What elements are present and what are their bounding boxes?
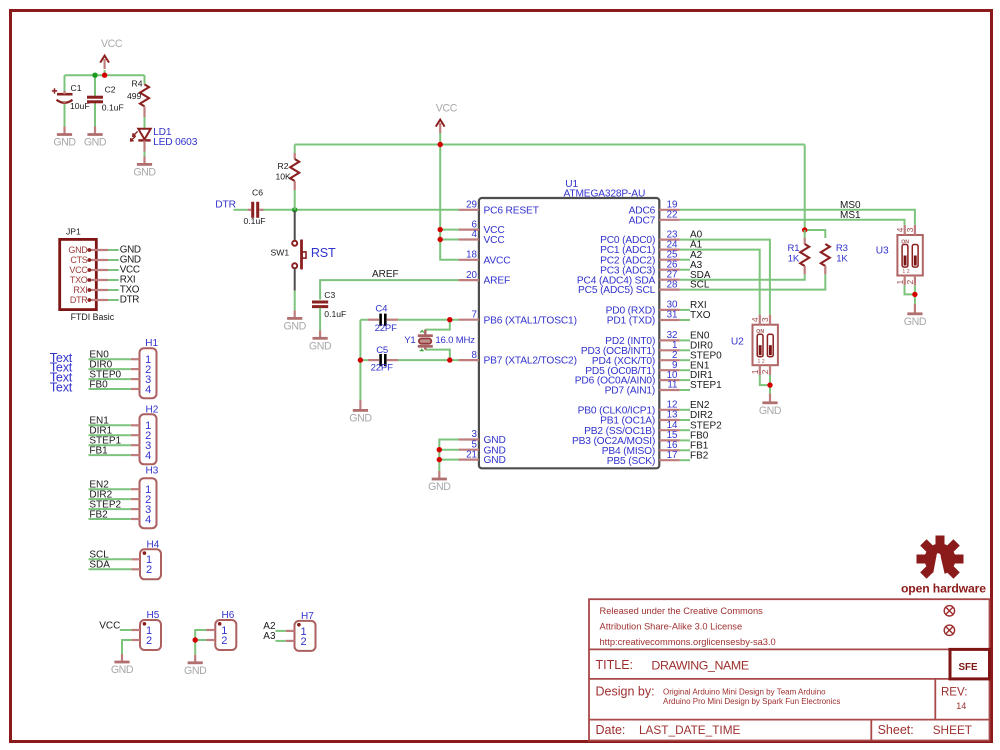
svg-text:MS1: MS1 bbox=[840, 210, 861, 221]
junction U3 gnd bbox=[912, 292, 917, 297]
svg-text:DTR: DTR bbox=[120, 295, 139, 306]
pin 29 PC6 RESET bbox=[459, 209, 479, 211]
ground H6 bbox=[184, 655, 207, 677]
VCC symbol center bbox=[436, 120, 445, 133]
capacitor C1 bbox=[52, 88, 73, 103]
ground C2 bbox=[84, 127, 107, 149]
pin 2 PD4 (XCK/T0) bbox=[659, 359, 680, 361]
svg-text:RXI: RXI bbox=[73, 285, 87, 295]
wire SW1 to gnd bbox=[294, 291, 296, 311]
svg-text:VCC: VCC bbox=[101, 38, 123, 50]
svg-text:21: 21 bbox=[466, 449, 477, 460]
capacitor C3 bbox=[312, 302, 328, 307]
svg-text:AREF: AREF bbox=[372, 269, 399, 280]
svg-text:14: 14 bbox=[956, 701, 966, 711]
open hardware logo gear bbox=[917, 536, 964, 584]
junction C5 rail bbox=[358, 357, 363, 362]
resistor R1 bbox=[804, 238, 806, 244]
wire STEP1 bbox=[89, 444, 131, 446]
pin 19 ADC6 bbox=[659, 209, 680, 211]
pin 26 PC3 (ADC3) bbox=[659, 269, 680, 271]
wire JP1 pin 5 bbox=[108, 289, 119, 291]
SFE box bbox=[950, 649, 990, 679]
svg-text:PB5 (SCK): PB5 (SCK) bbox=[607, 456, 655, 467]
svg-text:TITLE:: TITLE: bbox=[596, 658, 634, 672]
wire SCL to R3 bbox=[680, 274, 826, 289]
circle-x icon 1 bbox=[944, 606, 954, 616]
ground U3 bbox=[914, 304, 916, 306]
junction DTR/R2/SW1 bbox=[292, 207, 297, 212]
svg-text:20: 20 bbox=[466, 270, 477, 281]
header H4 bbox=[131, 549, 161, 579]
wire STEP0 stub bbox=[680, 359, 690, 361]
wire FB1 bbox=[89, 454, 131, 456]
svg-text:C6: C6 bbox=[252, 187, 263, 197]
wire MS1 bbox=[680, 220, 905, 225]
svg-text:R2: R2 bbox=[278, 161, 289, 171]
pin 4 VCC bbox=[459, 238, 479, 240]
wire STEP1 stub bbox=[680, 389, 690, 391]
svg-text:http:creativecommons.orglicens: http:creativecommons.orglicensesby-sa3.0 bbox=[600, 637, 776, 647]
ground LD1 bbox=[133, 156, 156, 178]
pin 12 PB0 (CLK0/ICP1) bbox=[659, 409, 680, 411]
svg-text:0.1uF: 0.1uF bbox=[324, 309, 346, 319]
wire AREF bbox=[320, 280, 459, 300]
pin 1 PD3 (OCB/INT1) bbox=[659, 349, 680, 351]
wire EN1 stub bbox=[680, 369, 690, 371]
wire JP1 pin 6 bbox=[108, 299, 119, 301]
capacitor C5 bbox=[368, 354, 398, 366]
svg-text:18: 18 bbox=[466, 250, 477, 261]
wire H5 pin1 bbox=[120, 629, 131, 631]
switch SW1 bbox=[292, 211, 306, 291]
svg-text:22PF: 22PF bbox=[375, 323, 397, 334]
svg-text:VCC: VCC bbox=[484, 235, 505, 246]
ground C1 bbox=[53, 127, 76, 149]
svg-text:C5: C5 bbox=[376, 345, 388, 356]
pin 10 PD6 (OC0A/AIN0) bbox=[659, 379, 680, 381]
svg-text:17: 17 bbox=[667, 450, 678, 461]
svg-text:H7: H7 bbox=[301, 611, 314, 622]
pin 32 PD2 (INT0) bbox=[659, 339, 680, 341]
junction rail/VCC bbox=[438, 142, 443, 147]
svg-text:Design by:: Design by: bbox=[596, 684, 655, 698]
svg-text:C4: C4 bbox=[375, 303, 388, 314]
svg-text:PC5 (ADC5) SCL: PC5 (ADC5) SCL bbox=[578, 285, 656, 296]
wire A1 to U2 bbox=[680, 250, 760, 315]
junction VCC/rail bbox=[102, 73, 107, 78]
pin 11 PD7 (AIN1) bbox=[659, 389, 680, 391]
svg-text:SDA: SDA bbox=[89, 560, 110, 571]
wire DIR2 bbox=[89, 498, 131, 500]
svg-text:PB7 (XTAL2/TOSC2): PB7 (XTAL2/TOSC2) bbox=[484, 356, 577, 367]
svg-text:LAST_DATE_TIME: LAST_DATE_TIME bbox=[639, 723, 741, 737]
pin 24 PC1 (ADC1) bbox=[659, 249, 680, 251]
svg-text:H2: H2 bbox=[146, 405, 159, 416]
svg-text:FB2: FB2 bbox=[690, 450, 709, 461]
pin 15 PB3 (OC2A/MOSI) bbox=[659, 439, 680, 441]
svg-text:VCC: VCC bbox=[69, 265, 88, 275]
ground U1 bbox=[428, 471, 451, 493]
pin 23 PC0 (ADC0) bbox=[659, 239, 680, 241]
svg-text:Text: Text bbox=[50, 381, 73, 395]
switch U3 bbox=[895, 225, 923, 285]
wire JP1 pin 4 bbox=[108, 279, 119, 281]
junction gnd pin5 bbox=[437, 447, 442, 452]
junction H6 bbox=[193, 637, 198, 642]
svg-text:PB6 (XTAL1/TOSC1): PB6 (XTAL1/TOSC1) bbox=[484, 315, 577, 326]
wire STEP2 bbox=[89, 508, 131, 510]
svg-text:VCC: VCC bbox=[436, 103, 458, 115]
svg-text:H6: H6 bbox=[222, 610, 235, 621]
wire FB2 stub bbox=[680, 459, 690, 461]
svg-text:CTS: CTS bbox=[70, 255, 87, 265]
svg-text:29: 29 bbox=[466, 200, 477, 211]
capacitor C2 bbox=[87, 97, 103, 102]
wire VCC top-left rail bbox=[65, 70, 145, 127]
svg-text:10uF: 10uF bbox=[70, 101, 90, 111]
pin 14 PB2 (SS/OC1B) bbox=[659, 429, 680, 431]
svg-text:Arduino Pro Mini Design by Spa: Arduino Pro Mini Design by Spark Fun Ele… bbox=[663, 697, 840, 706]
wire STEP2 stub bbox=[680, 429, 690, 431]
svg-text:Original Arduino Mini Design b: Original Arduino Mini Design by Team Ard… bbox=[663, 688, 826, 697]
pin 30 PD0 (RXD) bbox=[659, 309, 680, 311]
LED LD1 bbox=[131, 129, 151, 152]
junction gnd pin21 bbox=[437, 457, 442, 462]
IC U1 ATMEGA328P-AU box bbox=[479, 198, 659, 468]
junction VCC pin4 bbox=[438, 237, 443, 242]
svg-text:PC6 RESET: PC6 RESET bbox=[484, 205, 539, 216]
svg-text:VCC: VCC bbox=[99, 621, 120, 632]
wire DIR1 bbox=[89, 434, 131, 436]
junction U2 gnd bbox=[767, 382, 772, 387]
connector JP1 bbox=[60, 239, 108, 309]
wire EN2 stub bbox=[680, 409, 690, 411]
wire MS0 bbox=[680, 210, 915, 225]
svg-text:FTDI Basic: FTDI Basic bbox=[71, 312, 115, 322]
VCC symbol top-left bbox=[100, 56, 109, 69]
svg-text:STEP1: STEP1 bbox=[690, 380, 722, 391]
wire TXO stub bbox=[680, 319, 690, 321]
svg-text:499: 499 bbox=[127, 91, 142, 101]
svg-text:FB0: FB0 bbox=[89, 379, 108, 390]
wire SCL bbox=[89, 558, 132, 560]
junction C2/rail bbox=[92, 73, 97, 78]
pin 3 GND bbox=[459, 438, 479, 440]
junction XTAL2 pin8 bbox=[447, 357, 452, 362]
ground U2 bbox=[769, 394, 771, 395]
header H6 bbox=[207, 620, 237, 650]
crystal Y1 bbox=[418, 330, 433, 351]
header H7 bbox=[286, 621, 316, 651]
pin 6 VCC bbox=[459, 229, 479, 231]
wire DTR to C6 bbox=[234, 209, 248, 211]
pin 17 PB5 (SCK) bbox=[659, 459, 680, 461]
capacitor C4 bbox=[368, 314, 398, 326]
pin 22 ADC7 bbox=[659, 219, 680, 221]
header H5 bbox=[131, 620, 161, 650]
svg-text:PD7 (AIN1): PD7 (AIN1) bbox=[605, 386, 656, 397]
pin 27 PC4 (ADC4) SDA bbox=[659, 279, 680, 281]
svg-text:SCL: SCL bbox=[690, 280, 710, 291]
svg-text:H4: H4 bbox=[147, 539, 160, 550]
ground H5 bbox=[111, 654, 134, 676]
svg-text:TXO: TXO bbox=[70, 275, 88, 285]
svg-text:REV:: REV: bbox=[941, 686, 967, 698]
junction XTAL1 pin7 bbox=[447, 317, 452, 322]
svg-text:10K: 10K bbox=[276, 172, 292, 182]
svg-text:28: 28 bbox=[667, 279, 678, 290]
svg-text:U2: U2 bbox=[731, 336, 744, 347]
header H3 bbox=[131, 478, 157, 528]
svg-text:C1: C1 bbox=[71, 83, 82, 93]
pin 16 PB4 (MISO) bbox=[659, 449, 680, 451]
svg-text:8: 8 bbox=[472, 350, 478, 361]
wire C3 to gnd bbox=[319, 308, 321, 331]
wire SDA to R1 bbox=[680, 274, 805, 279]
ground SW1 bbox=[284, 310, 307, 332]
wire FB0 stub bbox=[680, 439, 690, 441]
svg-text:0.1uF: 0.1uF bbox=[102, 103, 124, 113]
wire DIR0 bbox=[89, 368, 131, 370]
wire LED to gnd bbox=[144, 152, 146, 157]
pin 13 PB1 (OC1A) bbox=[659, 419, 680, 421]
svg-text:JP1: JP1 bbox=[66, 227, 81, 237]
ground C3 bbox=[309, 330, 332, 352]
pin 20 AREF bbox=[459, 279, 479, 281]
wire EN0 bbox=[89, 358, 131, 360]
junction R1/R3 top bbox=[802, 227, 807, 232]
pin 31 PD1 (TXD) bbox=[659, 319, 680, 321]
wire FB2 bbox=[89, 518, 131, 520]
svg-text:open hardware: open hardware bbox=[901, 582, 986, 596]
svg-text:Sheet:: Sheet: bbox=[878, 723, 914, 737]
wire EN2 bbox=[89, 488, 131, 490]
resistor R2 bbox=[294, 145, 296, 154]
switch U2 bbox=[750, 315, 778, 375]
svg-text:FB2: FB2 bbox=[89, 509, 108, 520]
wire A0 to U2 bbox=[680, 240, 770, 315]
svg-text:Y1: Y1 bbox=[404, 335, 415, 346]
pin 9 PD5 (OC0B/T1) bbox=[659, 369, 680, 371]
svg-text:DTR: DTR bbox=[215, 199, 236, 210]
resistor R3 bbox=[821, 244, 830, 266]
junction VCC pin6 bbox=[438, 227, 443, 232]
wire EN0 stub bbox=[680, 339, 690, 341]
pin 21 GND bbox=[459, 459, 479, 461]
wire XTAL2 net bbox=[360, 350, 458, 400]
svg-text:22PF: 22PF bbox=[371, 362, 393, 373]
svg-text:LED 0603: LED 0603 bbox=[153, 137, 198, 148]
svg-text:C3: C3 bbox=[324, 290, 335, 300]
svg-text:ADC7: ADC7 bbox=[629, 215, 656, 226]
title block frame bbox=[589, 599, 990, 740]
wire FB0 bbox=[89, 388, 131, 390]
wire JP1 pin 3 bbox=[108, 269, 119, 271]
svg-text:1K: 1K bbox=[836, 253, 848, 264]
wire SDA bbox=[89, 568, 132, 570]
capacitor C6 bbox=[253, 202, 258, 218]
svg-text:R4: R4 bbox=[132, 79, 143, 89]
svg-text:AVCC: AVCC bbox=[484, 255, 511, 266]
wire RXI stub bbox=[680, 309, 690, 311]
pin 7 PB6 (XTAL1/TOSC1) bbox=[459, 319, 479, 321]
svg-text:16.0 MHz: 16.0 MHz bbox=[435, 335, 475, 346]
wire JP1 pin 1 bbox=[108, 249, 119, 251]
pin 28 PC5 (ADC5) SCL bbox=[659, 289, 680, 291]
svg-text:PD1 (TXD): PD1 (TXD) bbox=[607, 316, 655, 327]
wire JP1 pin 2 bbox=[108, 259, 119, 261]
svg-text:7: 7 bbox=[472, 309, 477, 320]
svg-text:0.1uF: 0.1uF bbox=[244, 216, 266, 226]
svg-text:Date:: Date: bbox=[596, 723, 626, 737]
wire U2 to gnd bbox=[760, 375, 770, 394]
svg-text:11: 11 bbox=[667, 380, 677, 391]
wire U1 GND pins bbox=[439, 440, 458, 472]
svg-text:H5: H5 bbox=[147, 610, 160, 621]
svg-text:TXO: TXO bbox=[690, 310, 711, 321]
svg-text:Attribution Share-Alike 3.0 Li: Attribution Share-Alike 3.0 License bbox=[600, 622, 743, 632]
svg-text:DRAWING_NAME: DRAWING_NAME bbox=[651, 659, 748, 673]
wire A3 stub bbox=[680, 269, 690, 271]
wire STEP0 bbox=[89, 378, 131, 380]
svg-text:4: 4 bbox=[472, 229, 478, 240]
svg-text:GND: GND bbox=[484, 455, 506, 466]
svg-text:RST: RST bbox=[311, 246, 336, 260]
resistor R4 bbox=[140, 84, 149, 106]
header H1 bbox=[131, 348, 157, 398]
svg-text:SFE: SFE bbox=[958, 662, 978, 673]
circle-x icon 2 bbox=[944, 625, 954, 635]
pin 25 PC2 (ADC2) bbox=[659, 259, 680, 261]
svg-text:H3: H3 bbox=[146, 466, 159, 477]
wire DIR2 stub bbox=[680, 419, 690, 421]
header H2 bbox=[131, 414, 157, 464]
wire DIR1 stub bbox=[680, 379, 690, 381]
svg-text:GND: GND bbox=[68, 245, 88, 255]
wire XTAL1 net bbox=[360, 320, 458, 360]
svg-text:SW1: SW1 bbox=[271, 247, 290, 257]
wire DIR0 stub bbox=[680, 349, 690, 351]
pin 18 AVCC bbox=[459, 259, 479, 261]
wire U3 to gnd bbox=[905, 285, 915, 304]
wire H6 pins to gnd bbox=[195, 630, 206, 655]
svg-text:FB1: FB1 bbox=[89, 445, 108, 456]
wire A2 stub bbox=[680, 259, 690, 261]
wire C6 to U1 pin29 bbox=[259, 209, 263, 211]
pin 5 GND bbox=[459, 449, 479, 451]
wire EN1 bbox=[89, 424, 131, 426]
wire H5 pin2 to gnd bbox=[122, 640, 131, 654]
svg-text:C2: C2 bbox=[105, 84, 116, 94]
wire FB1 stub bbox=[680, 449, 690, 451]
svg-text:Released under the Creative Co: Released under the Creative Commons bbox=[600, 606, 764, 616]
svg-text:DTR: DTR bbox=[70, 295, 88, 305]
svg-text:A3: A3 bbox=[263, 631, 276, 642]
svg-text:1K: 1K bbox=[788, 253, 800, 264]
wire A2 bbox=[276, 630, 286, 632]
svg-text:22: 22 bbox=[667, 210, 678, 221]
wire A3 bbox=[276, 640, 286, 642]
svg-text:U3: U3 bbox=[876, 245, 889, 256]
wire VCC main rail bbox=[295, 133, 826, 260]
pin 8 PB7 (XTAL2/TOSC2) bbox=[459, 359, 479, 361]
svg-text:31: 31 bbox=[667, 310, 678, 321]
svg-text:ATMEGA328P-AU: ATMEGA328P-AU bbox=[564, 188, 646, 199]
svg-text:AREF: AREF bbox=[484, 276, 511, 287]
svg-text:H1: H1 bbox=[145, 338, 158, 349]
ground crystal bbox=[359, 400, 361, 402]
svg-text:SHEET: SHEET bbox=[933, 723, 972, 737]
wire R4 to LED bbox=[144, 117, 146, 128]
